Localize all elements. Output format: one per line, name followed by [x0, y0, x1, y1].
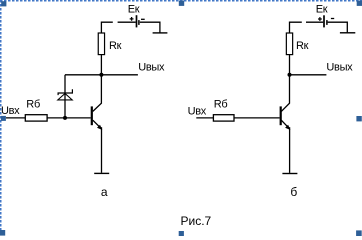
resistor Rb (circuit b): [213, 115, 234, 121]
wire: node to zener cathode (circuit a): [64, 75, 66, 93]
wire: zener anode to base node (circuit a): [64, 93, 66, 118]
svg-text:Uвх: Uвх: [188, 105, 207, 117]
transistor VT collector lead (circuit b): [281, 75, 289, 112]
transistor VT base bar (circuit b): [280, 106, 282, 125]
zener diode cathode bar (circuit a): [58, 89, 72, 95]
node: collector junction dot (circuit a): [99, 73, 103, 77]
wire: Rk to collector node (circuit a): [100, 55, 102, 75]
svg-text:Rб: Rб: [26, 99, 40, 111]
wire: supply top segment 1 with corner to Rk (circuit b): [290, 22, 302, 33]
battery Ek plus sign (circuit a): [130, 17, 134, 21]
resistor Rb (circuit a): [25, 115, 47, 121]
wire: output node Uvyx (circuit b): [290, 74, 327, 76]
battery Ek negative plate (circuit a): [138, 20, 140, 25]
transistor VT emitter arrow (circuit a): [97, 125, 102, 130]
battery Ek minus sign (circuit a): [141, 18, 145, 20]
node: base junction dot (circuit a): [63, 116, 67, 120]
wire: emitter to ground (circuit b): [289, 127, 291, 173]
battery Ek minus sign (circuit b): [331, 18, 334, 20]
zener diode triangle (circuit a): [58, 94, 72, 100]
ground (circuit b): [282, 173, 297, 175]
svg-text:Рис.7: Рис.7: [181, 214, 212, 228]
wire: input Uvx to Rb (circuit a): [6, 117, 25, 119]
svg-text:а: а: [101, 185, 108, 199]
wire: Rb to transistor base (circuit b): [234, 117, 280, 119]
transistor VT collector lead (circuit a): [93, 75, 102, 112]
battery Ek positive plate (circuit b): [323, 15, 325, 27]
svg-text:Uвых: Uвых: [138, 62, 165, 74]
svg-text:Ек: Ек: [128, 3, 140, 15]
svg-text:б: б: [290, 185, 297, 199]
battery Ek plus sign (circuit b): [318, 17, 322, 21]
svg-text:Ек: Ек: [316, 4, 328, 16]
wire: Rk to collector node (circuit b): [289, 55, 291, 75]
svg-text:Uвых: Uвых: [326, 62, 353, 74]
svg-text:Rк: Rк: [296, 40, 309, 52]
wire: supply top segment 1 with corner to Rk (circuit a): [101, 22, 112, 33]
wire: supply top segment 2 to battery plus (circuit a): [118, 21, 136, 23]
transistor VT emitter arrow (circuit b): [285, 125, 290, 130]
transistor VT emitter lead (circuit b): [281, 120, 289, 129]
ground (circuit a): [94, 172, 109, 174]
transistor VT emitter lead (circuit a): [93, 120, 102, 129]
wire: emitter to ground (circuit a): [101, 127, 103, 173]
battery Ek negative plate (circuit b): [326, 20, 328, 25]
svg-text:Rб: Rб: [214, 98, 228, 110]
node: collector junction dot (circuit b): [288, 73, 292, 77]
wire: input Uvx to Rb (circuit b): [196, 117, 213, 119]
resistor Rk (circuit a): [98, 33, 104, 55]
ground bar at battery minus (circuit a): [153, 32, 168, 34]
resistor Rk (circuit b): [286, 33, 292, 55]
svg-text:Rк: Rк: [109, 40, 122, 52]
svg-text:Uвх: Uвх: [1, 105, 20, 117]
wire: supply top segment 2 to battery plus (circuit b): [306, 21, 323, 23]
battery Ek positive plate (circuit a): [136, 15, 138, 27]
ground bar at battery minus (circuit b): [340, 32, 355, 34]
wire: Rb to transistor base (circuit a): [47, 117, 91, 119]
wire: battery minus to ground (circuit a): [140, 22, 160, 32]
transistor VT base bar (circuit a): [91, 106, 93, 125]
wire: output node Uvyx (circuit a): [65, 74, 138, 76]
wire: battery minus to ground (circuit b): [328, 22, 348, 32]
